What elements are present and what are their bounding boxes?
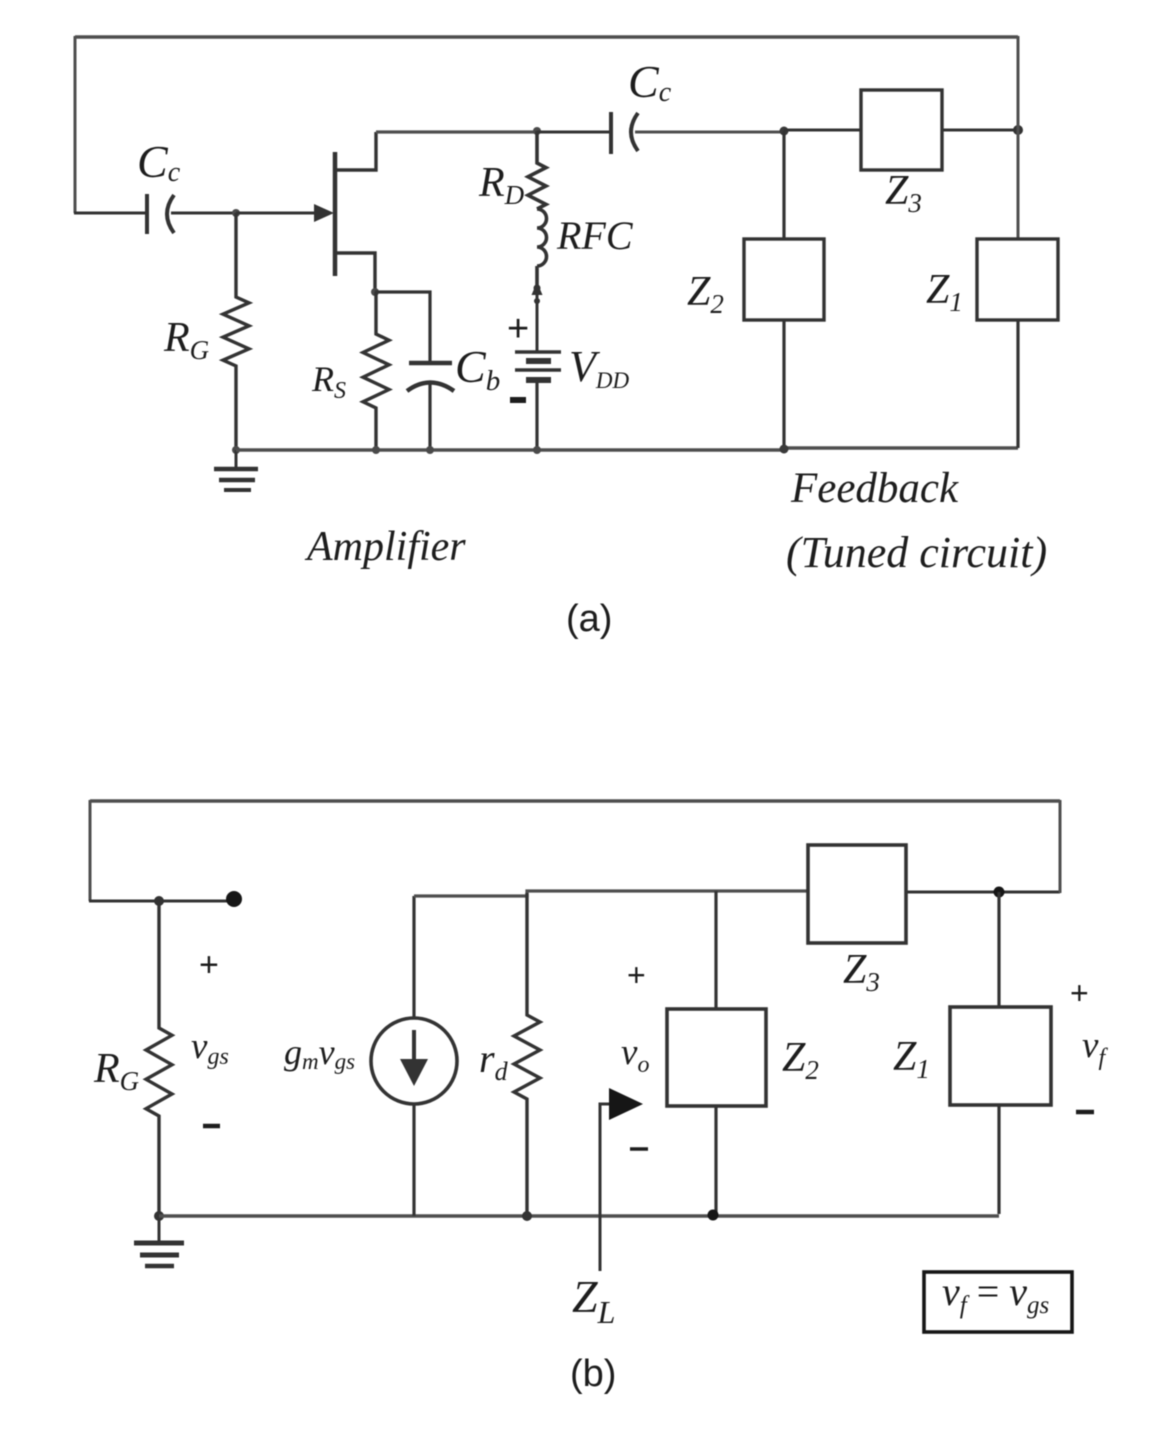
- wire : (b) inner top rail: [414, 891, 809, 896]
- svg-text:(a): (a): [566, 598, 612, 640]
- wire : Z3 right to Z1 node (b): [906, 891, 1060, 894]
- node : Z2 bottom junction dot (b): [708, 1210, 719, 1221]
- node : gate node junction dot: [232, 209, 240, 217]
- ground symbol (b): [134, 1216, 184, 1266]
- label vf minus sign: [1076, 1110, 1094, 1115]
- wire : current-direction arrow above VDD: [536, 294, 539, 351]
- wire : Z1 bottom lead (b): [997, 1105, 1000, 1214]
- resistor RS: [363, 292, 389, 450]
- label vgs minus sign: [203, 1124, 220, 1129]
- node : Z2 top junction dot (a): [780, 127, 789, 136]
- node : RS bottom junction dot: [372, 446, 380, 454]
- wire : Z2 bottom lead (a): [782, 320, 785, 449]
- current source gm*vgs circle: [371, 1018, 457, 1104]
- wire : gate node to JFET gate arrow: [236, 212, 318, 215]
- wire : Z3 right to Z1 node (a): [942, 129, 1018, 132]
- wire : (b) bottom ground rail: [159, 1214, 999, 1217]
- wire : Z1 top lead (b): [997, 892, 1000, 1007]
- wire : Z2 top lead (b): [714, 891, 717, 1009]
- node : VDD bottom junction dot: [533, 446, 541, 454]
- node : RG bottom junction dot (b): [154, 1211, 164, 1221]
- equation box vf = vgs: [924, 1272, 1072, 1332]
- wire : node to Z3 left (a): [784, 129, 861, 132]
- wire : current source bottom lead: [412, 1104, 415, 1216]
- transistor Q1 JFET channel bar: [333, 152, 338, 276]
- node : drain / RD junction dot: [533, 127, 541, 135]
- svg-text:RFC: RFC: [556, 213, 634, 258]
- wire : drain node to output Cc: [537, 131, 611, 134]
- svg-text:+: +: [1070, 975, 1089, 1011]
- wire : (b) top feedback rail: [90, 799, 1060, 803]
- wire : (b) left vertical: [89, 800, 92, 901]
- svg-text:(b): (b): [570, 1353, 616, 1395]
- impedance block Z3 (a): [861, 90, 942, 170]
- node : RFC / VDD junction dot: [534, 285, 541, 292]
- ZL probe arrow: [600, 1104, 612, 1271]
- capacitor Cc (input coupling), straight plate: [145, 194, 149, 234]
- wire : (a) bottom ground rail: [236, 448, 1018, 450]
- wire : Cb bottom lead: [428, 382, 431, 450]
- node : Z2 bottom junction dot (a): [780, 445, 789, 454]
- impedance block Z1 (a): [977, 239, 1058, 320]
- resistor RD: [528, 131, 546, 209]
- svg-text:+: +: [507, 308, 529, 350]
- node : Cb bottom junction dot: [426, 446, 434, 454]
- node : rd bottom junction dot: [522, 1211, 532, 1221]
- wire : Z1 bottom lead (a): [1016, 320, 1019, 448]
- battery VDD plates: [515, 352, 561, 380]
- svg-text:Feedback: Feedback: [790, 465, 959, 512]
- current source arrow: [412, 1030, 416, 1062]
- resistor RG (b): [146, 901, 172, 1216]
- wire : (a) top feedback rail: [75, 35, 1018, 39]
- wire : current source top lead: [412, 896, 415, 1018]
- wire : VDD bottom lead: [535, 381, 538, 450]
- capacitor Cc (output coupling), straight plate: [609, 112, 613, 154]
- wire : (a) drain rail to RD node: [376, 130, 537, 133]
- impedance block Z1 (b): [950, 1007, 1051, 1105]
- svg-text:+: +: [199, 946, 219, 984]
- wire : output Cc to Z2 node: [635, 131, 784, 134]
- ground symbol (a): [214, 450, 258, 490]
- wire : JFET source lead: [335, 253, 375, 292]
- capacitor Cc (input coupling), curved plate: [167, 195, 174, 233]
- impedance block Z3 (b): [808, 845, 906, 943]
- node : RG top junction dot (b): [154, 896, 164, 906]
- node : Z1 top junction dot (b): [994, 887, 1005, 898]
- transistor Q1 gate arrowhead: [314, 204, 334, 222]
- wire : input to Cc left plate: [74, 212, 147, 215]
- resistor rd: [514, 893, 540, 1216]
- capacitor Cc (output coupling), curved plate: [631, 113, 638, 151]
- wire : Cc to gate node: [171, 212, 236, 215]
- wire : (b) right vertical: [1059, 800, 1062, 893]
- capacitor Cb curved plate: [407, 383, 454, 392]
- impedance block Z2 (b): [667, 1009, 766, 1106]
- battery VDD minus sign: [510, 397, 526, 403]
- label vo minus sign: [630, 1147, 648, 1151]
- wire : source node to Cb: [375, 292, 430, 363]
- wire : JFET drain lead: [335, 132, 376, 170]
- wire : (a) right vertical, top rail to Z1: [1017, 36, 1020, 239]
- resistor RG (a): [223, 213, 249, 450]
- node : open gate terminal dot: [226, 891, 242, 907]
- node : RG bottom junction dot: [232, 446, 240, 454]
- wire : (a) left vertical from top rail to input: [74, 36, 77, 213]
- node : Z1 top junction dot (a): [1013, 125, 1023, 135]
- capacitor Cb straight plate: [409, 361, 452, 366]
- node : source junction dot: [371, 288, 379, 296]
- svg-text:+: +: [627, 957, 646, 993]
- wire : (b) left vertical to gate terminal: [89, 900, 232, 903]
- impedance block Z2 (a): [744, 239, 824, 320]
- svg-text:Amplifier: Amplifier: [304, 524, 466, 570]
- svg-text:(Tuned circuit): (Tuned circuit): [786, 528, 1047, 577]
- inductor RFC coil: [537, 209, 547, 286]
- wire : Z2 bottom lead (b): [714, 1106, 717, 1215]
- wire : Z2 top lead (a): [782, 131, 785, 239]
